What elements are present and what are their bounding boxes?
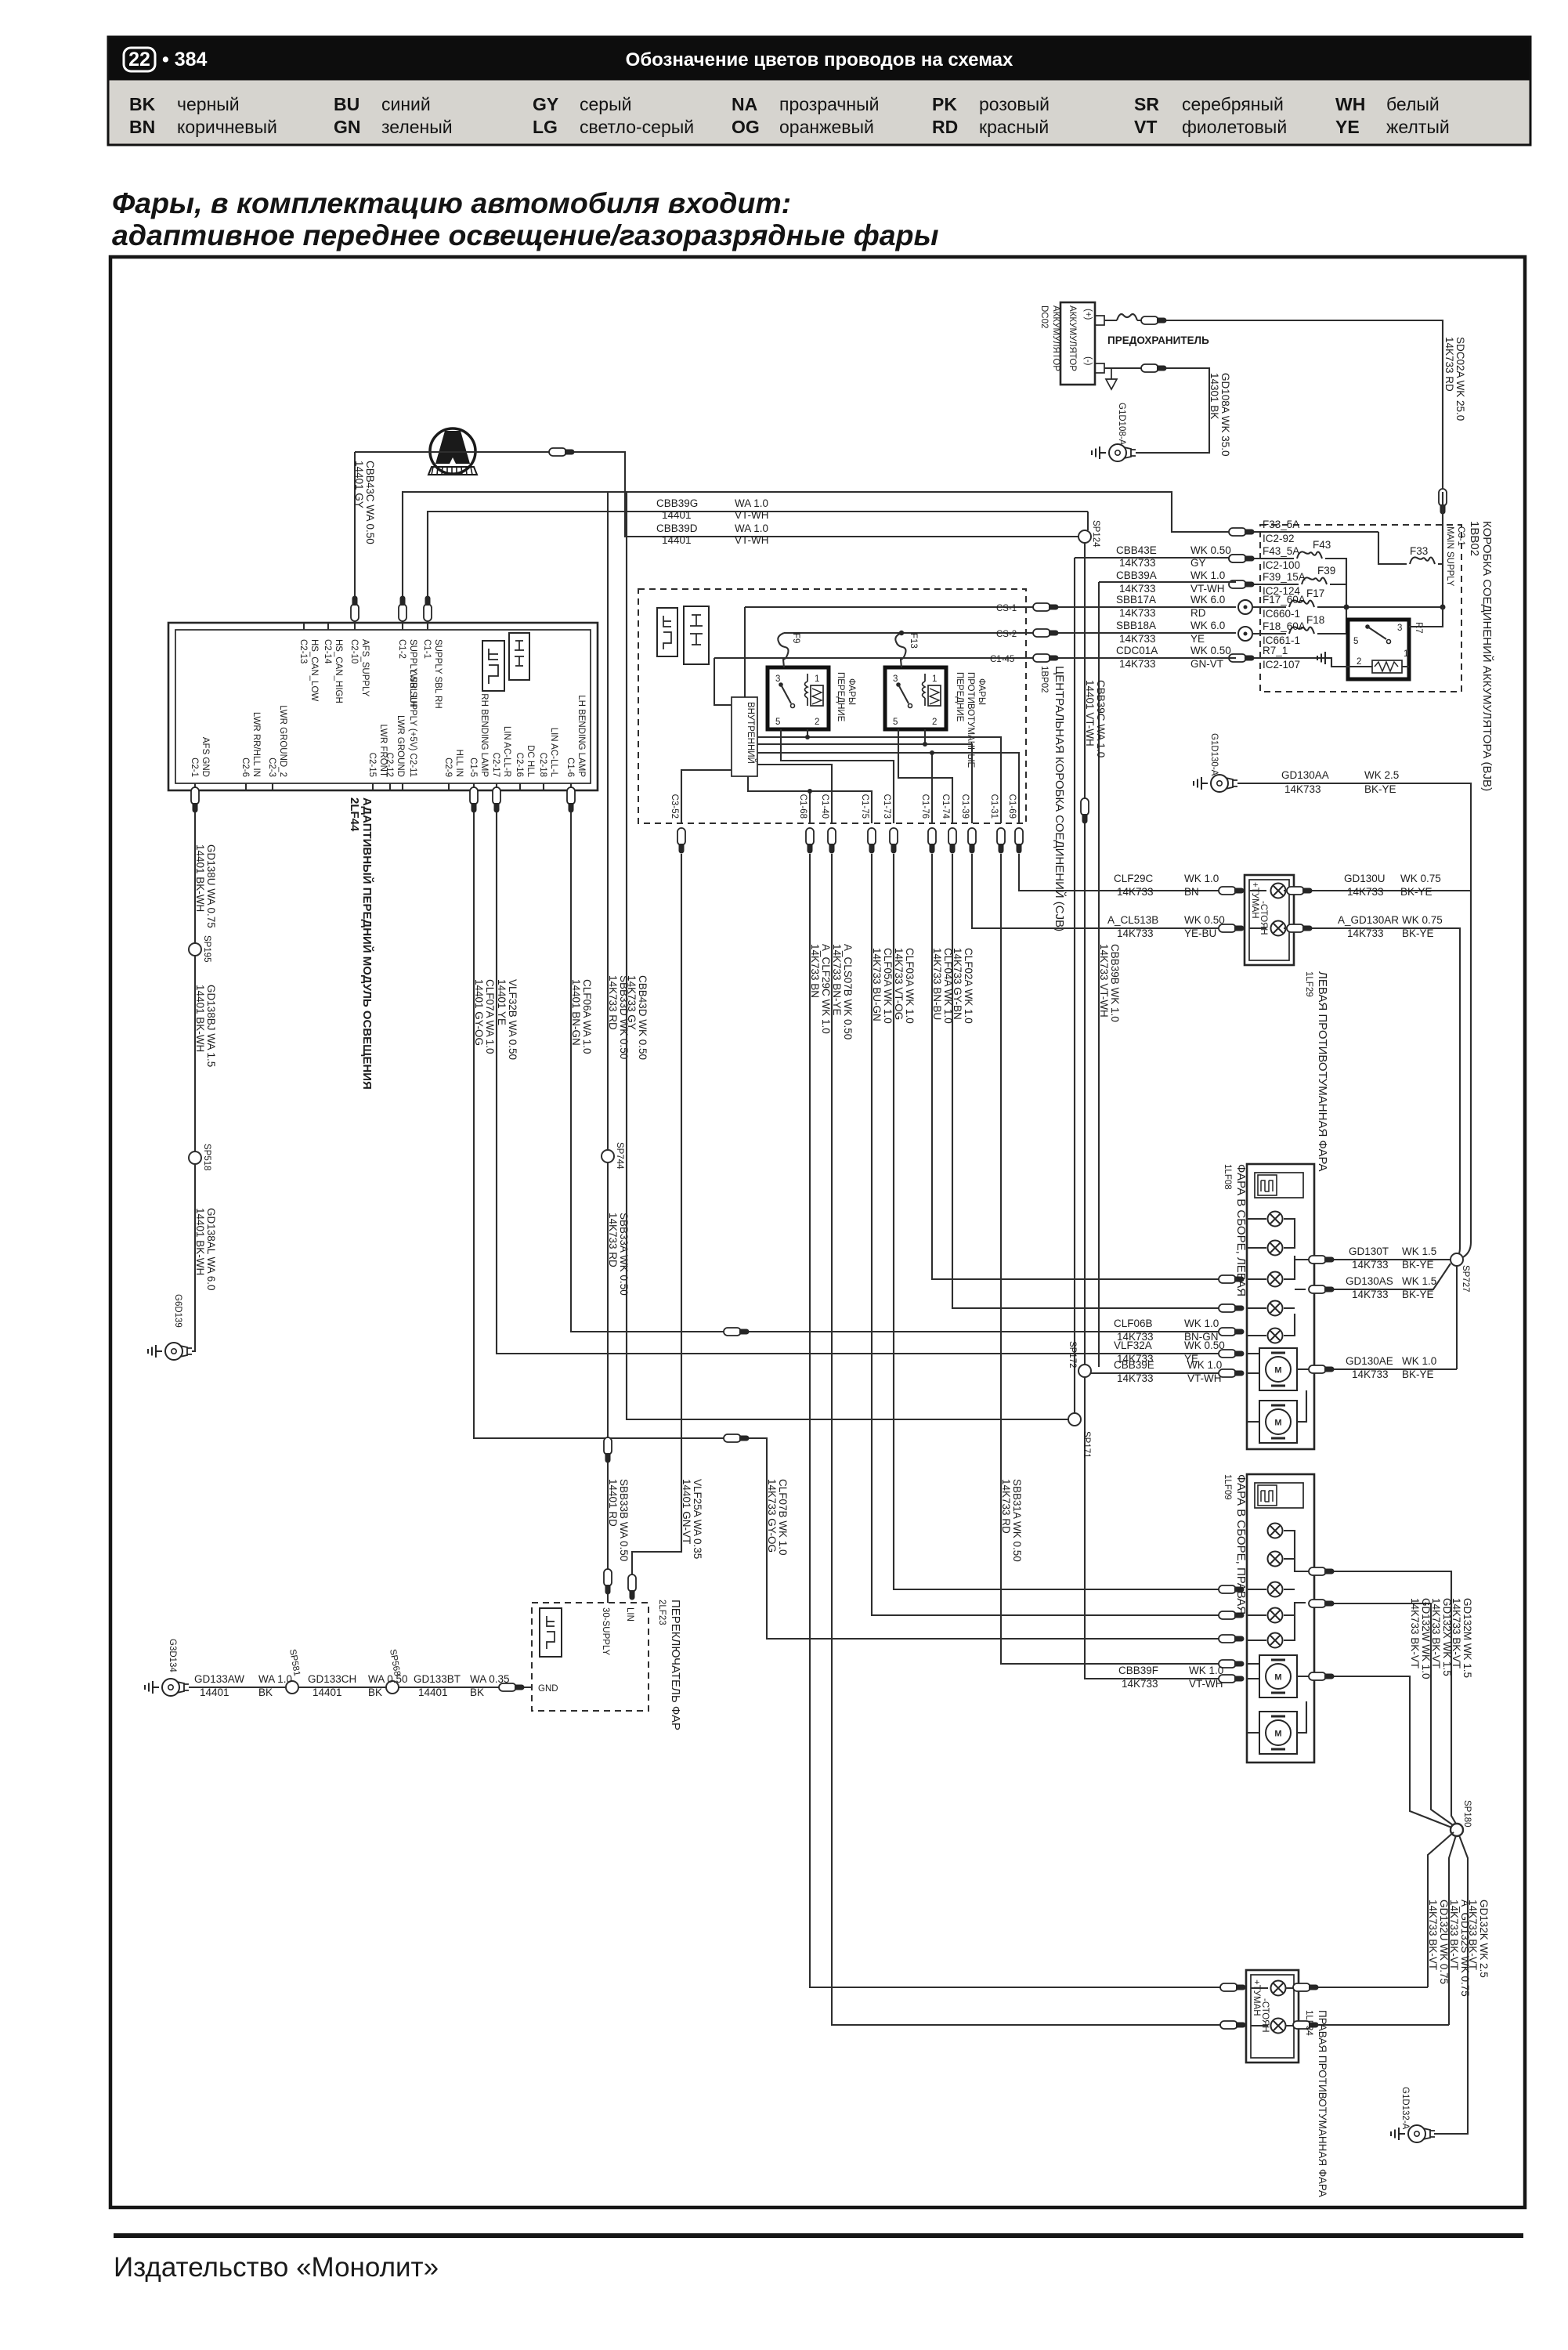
svg-text:BN: BN (1184, 886, 1199, 898)
svg-text:CLF06A WA 1.0: CLF06A WA 1.0 (581, 979, 593, 1054)
svg-text:C2-17: C2-17 (491, 753, 500, 777)
svg-text:GY: GY (1190, 557, 1206, 569)
svg-text:IC2-107: IC2-107 (1263, 659, 1300, 671)
svg-text:14401 GN-VT: 14401 GN-VT (681, 1479, 692, 1544)
svg-text:WK 2.5: WK 2.5 (1364, 769, 1399, 781)
wire A_CLS07B from C1-40 (832, 854, 1227, 2025)
svg-text:SBB33B WA 0.50: SBB33B WA 0.50 (618, 1479, 630, 1561)
svg-text:14K733: 14K733 (1117, 927, 1154, 939)
svg-text:14401 GY: 14401 GY (353, 461, 365, 508)
motor 2 (1259, 1712, 1297, 1754)
svg-text:IC2-92: IC2-92 (1263, 533, 1295, 544)
svg-text:YE: YE (1335, 117, 1360, 137)
fuse F13 above relay 2 (895, 633, 905, 667)
fusible link squiggle on + wire (1117, 314, 1137, 320)
svg-text:C1-6: C1-6 (565, 757, 575, 777)
switch 2LF23 dashed box (532, 1603, 649, 1711)
wire battery - to ground (1104, 368, 1209, 453)
svg-text:LG: LG (533, 117, 558, 137)
svg-text:BK: BK (368, 1687, 382, 1698)
svg-text:WK 6.0: WK 6.0 (1190, 594, 1225, 606)
wire A_CLF29C from C1-68 (810, 854, 1227, 1987)
svg-text:CLF02A WK 1.0: CLF02A WK 1.0 (963, 948, 974, 1024)
wire CLF05A from C1-75 (872, 854, 1227, 1615)
svg-text:14K733 BN-BU: 14K733 BN-BU (931, 948, 943, 1020)
motor 1 (1259, 1655, 1297, 1697)
svg-text:CBB43D WK 0.50: CBB43D WK 0.50 (637, 975, 649, 1060)
svg-text:CBB43C WA 0.50: CBB43C WA 0.50 (364, 461, 376, 544)
splice SP124 (1078, 530, 1091, 543)
wire SBB31A from C1-31 (1001, 854, 1227, 1664)
svg-text:GD132K WK 2.5: GD132K WK 2.5 (1478, 1900, 1490, 1978)
row SBB18A / CS-2 (784, 632, 1236, 634)
svg-text:LIN: LIN (625, 1607, 634, 1621)
svg-text:WK 0.50: WK 0.50 (1184, 914, 1225, 926)
svg-text:VT-WH: VT-WH (1187, 1372, 1222, 1384)
component symbol 2 in CJB (684, 606, 709, 664)
connectors under CJB (677, 828, 685, 854)
wire A_CL513B from C1-39 (972, 854, 1227, 928)
svg-text:F18_60A: F18_60A (1263, 620, 1306, 632)
svg-text:14K733: 14K733 (1117, 886, 1154, 898)
svg-text:SDC02A WK 25.0: SDC02A WK 25.0 (1454, 337, 1466, 421)
wire CLF03A from C1-73 (894, 854, 1227, 1589)
svg-text:BU: BU (334, 94, 359, 114)
svg-text:14K733: 14K733 (1119, 607, 1156, 619)
svg-text:PK: PK (932, 94, 957, 114)
wire branch to pin C1-68 (809, 791, 811, 823)
CJB bottom pin stubs and labels (670, 794, 1017, 819)
svg-text:VT-WH: VT-WH (735, 534, 769, 546)
svg-text:серебряный: серебряный (1182, 94, 1284, 114)
svg-text:WK 6.0: WK 6.0 (1190, 620, 1225, 631)
wire VLF32B from module C2-17 (497, 790, 1227, 1354)
fog output wires (1299, 1987, 1428, 1988)
svg-text:C1-39: C1-39 (960, 794, 970, 819)
svg-text:SP171: SP171 (1082, 1431, 1091, 1459)
svg-text:3: 3 (1397, 624, 1402, 633)
wire GD130AA (1237, 783, 1471, 1242)
svg-text:GD133CH: GD133CH (308, 1673, 356, 1685)
svg-text:14401 VT-WH: 14401 VT-WH (1084, 680, 1096, 747)
svg-text:CLF07A WA 1.0: CLF07A WA 1.0 (484, 979, 496, 1054)
fog lamp bulb 2 (1271, 921, 1286, 936)
svg-text:14401 BK-WH: 14401 BK-WH (194, 1208, 206, 1275)
splice SP180 (1451, 1824, 1463, 1836)
svg-text:C1-74: C1-74 (941, 794, 950, 819)
svg-text:RH BENDING LAMP: RH BENDING LAMP (479, 693, 489, 777)
svg-text:C2-6: C2-6 (240, 757, 250, 777)
svg-text:BN: BN (129, 117, 155, 137)
svg-text:WK 1.0: WK 1.0 (1402, 1355, 1436, 1367)
relay R7 box (1348, 620, 1409, 679)
svg-text:розовый: розовый (979, 94, 1050, 114)
svg-text:GD138U WA 0.75: GD138U WA 0.75 (205, 844, 217, 928)
svg-text:14K733 RD: 14K733 RD (1443, 337, 1455, 392)
svg-text:серый: серый (580, 94, 631, 114)
publisher logo (430, 428, 475, 474)
svg-text:BK-YE: BK-YE (1402, 1259, 1434, 1271)
svg-text:фиолетовый: фиолетовый (1182, 117, 1287, 137)
svg-text:SP727: SP727 (1461, 1265, 1470, 1292)
splice SP581 (286, 1681, 298, 1694)
svg-text:ПЕРЕДНИЕ: ПЕРЕДНИЕ (955, 672, 964, 722)
svg-text:14K733: 14K733 (1352, 1289, 1389, 1300)
svg-text:R7: R7 (1414, 622, 1423, 634)
svg-text:C2-13: C2-13 (298, 639, 308, 663)
wire CBB39C down from SP124 (1085, 512, 1088, 1371)
svg-text:ФАРА В СБОРЕ, ЛЕВАЯ: ФАРА В СБОРЕ, ЛЕВАЯ (1234, 1164, 1248, 1296)
svg-text:LIN AC-LL-L: LIN AC-LL-L (549, 728, 558, 778)
wire CBB43E down (1074, 558, 1075, 1419)
ВНУТРЕННИЙ box (732, 697, 757, 776)
wire CBB39D from module C1-1 up (428, 512, 1088, 623)
svg-text:2: 2 (815, 718, 819, 727)
svg-text:C1-69: C1-69 (1007, 794, 1017, 819)
svg-text:1LF09: 1LF09 (1223, 1474, 1232, 1500)
svg-text:F39_15A: F39_15A (1263, 571, 1306, 583)
svg-text:черный: черный (177, 94, 240, 114)
component symbol 2 inside module (509, 633, 529, 680)
svg-text:прозрачный: прозрачный (779, 94, 879, 114)
svg-text:GN-VT: GN-VT (1190, 658, 1223, 670)
svg-text:14K733 BK-VT: 14K733 BK-VT (1409, 1598, 1421, 1668)
svg-text:BK-YE: BK-YE (1402, 1289, 1434, 1300)
svg-text:C2-1: C2-1 (190, 757, 199, 777)
svg-text:(-): (-) (1083, 356, 1093, 366)
connector on logo line (549, 448, 575, 456)
svg-text:ВНУТРЕННИЙ: ВНУТРЕННИЙ (746, 702, 756, 764)
ground symbol at relay (1317, 652, 1331, 664)
svg-text:2: 2 (1357, 657, 1361, 667)
lamps (1268, 1524, 1283, 1538)
svg-text:GD132U WK 0.75: GD132U WK 0.75 (1438, 1900, 1450, 1984)
svg-text:1LF34: 1LF34 (1304, 2010, 1313, 2036)
wire CLF07A from module C1-5 (474, 790, 1227, 1639)
fuse F9 above relay (778, 633, 788, 667)
wire CLF04A from C1-76 (932, 854, 1227, 1279)
svg-text:1: 1 (815, 674, 819, 684)
svg-text:WA 0.50: WA 0.50 (368, 1673, 408, 1685)
internal links (1247, 1589, 1266, 1679)
svg-text:красный: красный (979, 117, 1049, 137)
svg-text:SP195: SP195 (202, 935, 211, 963)
ground G3D134 row (162, 1679, 189, 1696)
module top pin ticks (304, 623, 428, 630)
svg-text:14K733 GY-BN: 14K733 GY-BN (952, 948, 963, 1020)
svg-text:14K733: 14K733 (1352, 1259, 1389, 1271)
svg-text:14K733: 14K733 (1284, 783, 1321, 795)
svg-text:14K733: 14K733 (1119, 658, 1156, 670)
svg-text:LIN AC-LL-R: LIN AC-LL-R (502, 726, 511, 777)
svg-text:DC HLL: DC HLL (526, 745, 535, 778)
svg-text:14K733 BK-VT: 14K733 BK-VT (1448, 1900, 1460, 1970)
svg-text:3: 3 (893, 674, 898, 684)
input connectors (1220, 1983, 1246, 1991)
svg-text:SP172: SP172 (1068, 1341, 1077, 1368)
svg-text:14K733: 14K733 (1347, 927, 1384, 939)
svg-text:ФАРЫ: ФАРЫ (847, 678, 856, 705)
svg-text:A_CLF29C WK 1.0: A_CLF29C WK 1.0 (820, 944, 832, 1034)
svg-text:WK 1.0: WK 1.0 (1189, 1665, 1223, 1676)
svg-text:A_GD130AR: A_GD130AR (1338, 914, 1399, 926)
svg-text:WK 0.50: WK 0.50 (1190, 544, 1231, 556)
wire CLF06A from module C1-6 (571, 790, 1227, 1332)
svg-text:WA 1.0: WA 1.0 (735, 522, 768, 534)
svg-text:WK 1.0: WK 1.0 (1184, 873, 1219, 884)
svg-text:30-SUPPLY: 30-SUPPLY (601, 1607, 610, 1655)
svg-text:F39: F39 (1317, 565, 1335, 577)
output rows GD130T / GD130AS / GD130AE (1314, 1259, 1451, 1260)
svg-text:1BB02: 1BB02 (1468, 521, 1481, 556)
wire AFS GND down from module (192, 790, 195, 1351)
svg-text:SP180: SP180 (1462, 1800, 1472, 1828)
svg-text:CLF05A WK 1.0: CLF05A WK 1.0 (882, 948, 894, 1024)
svg-text:АККУМУЛЯТОР: АККУМУЛЯТОР (1051, 305, 1060, 371)
svg-text:желтый: желтый (1386, 117, 1450, 137)
svg-text:GD133AW: GD133AW (194, 1673, 244, 1685)
svg-text:G1D108-A: G1D108-A (1117, 403, 1126, 446)
svg-text:CLF06B: CLF06B (1114, 1318, 1153, 1329)
svg-text:14401 RD: 14401 RD (607, 1479, 619, 1527)
svg-text:14K733 BU-GN: 14K733 BU-GN (871, 948, 883, 1021)
svg-text:GD130AE: GD130AE (1346, 1355, 1393, 1367)
svg-text:АККУМУЛЯТОР: АККУМУЛЯТОР (1068, 305, 1077, 371)
svg-text:КОРОБКА СОЕДИНЕНИЙ АККУМУЛЯТОР: КОРОБКА СОЕДИНЕНИЙ АККУМУЛЯТОРА (BJB) (1480, 521, 1494, 791)
svg-text:SBB33A WK 0.50: SBB33A WK 0.50 (618, 1213, 630, 1296)
svg-text:14301 BK: 14301 BK (1209, 373, 1220, 419)
wire relay1 pin2 drop (807, 729, 808, 737)
svg-text:WK 1.5: WK 1.5 (1402, 1245, 1436, 1257)
svg-text:WA 1.0: WA 1.0 (258, 1673, 292, 1685)
svg-text:CBB39A: CBB39A (1116, 569, 1157, 581)
svg-text:LWR GROUND_2: LWR GROUND_2 (278, 705, 287, 777)
svg-text:5: 5 (893, 718, 898, 727)
module bottom pin labels (190, 669, 586, 777)
row F17_60A with fuse F17 (1253, 606, 1443, 608)
svg-text:ПРОТИВОТУМАННЫЕ: ПРОТИВОТУМАННЫЕ (966, 672, 975, 768)
wire branch to pin C1-76 (931, 753, 933, 823)
right fog lamp box (1246, 1970, 1299, 2063)
svg-text:светло-серый: светло-серый (580, 117, 694, 137)
svg-text:C1-73: C1-73 (882, 794, 891, 819)
svg-text:C2-16: C2-16 (515, 753, 524, 777)
svg-text:+ТУМАН: +ТУМАН (1252, 1979, 1261, 2016)
wire CLF02A from C1-74 (952, 854, 1227, 1308)
svg-text:АДАПТИВНЫЙ ПЕРЕДНИЙ МОДУЛЬ ОСВ: АДАПТИВНЫЙ ПЕРЕДНИЙ МОДУЛЬ ОСВЕЩЕНИЯ (360, 797, 374, 1090)
svg-text:F17_60A: F17_60A (1263, 594, 1306, 606)
svg-text:1: 1 (932, 674, 937, 684)
row SBB17A / CS-1 (745, 607, 1236, 697)
ground G6D139 (165, 1343, 192, 1360)
ground eyelet G1D108-A (1109, 444, 1136, 461)
internal links (1247, 1219, 1266, 1336)
svg-text:RD: RD (932, 117, 958, 137)
svg-text:14K733: 14K733 (1119, 633, 1156, 645)
svg-text:2: 2 (932, 718, 937, 727)
svg-text:SBB31A WK 0.50: SBB31A WK 0.50 (1011, 1479, 1023, 1562)
svg-text:C2-9: C2-9 (443, 757, 453, 777)
svg-text:C1-2: C1-2 (397, 639, 406, 659)
svg-text:GD133BT: GD133BT (414, 1673, 461, 1685)
svg-text:CBB39C WA 1.0: CBB39C WA 1.0 (1095, 680, 1107, 757)
svg-text:синий: синий (381, 94, 431, 114)
heater symbol (1255, 1173, 1303, 1198)
svg-text:GD130T: GD130T (1349, 1245, 1389, 1257)
svg-text:GD108A WK 35.0: GD108A WK 35.0 (1219, 373, 1231, 457)
svg-text:C1-75: C1-75 (860, 794, 869, 819)
svg-text:14K733: 14K733 (1122, 1678, 1158, 1690)
svg-text:LWR RR/HLL IN: LWR RR/HLL IN (251, 712, 261, 777)
splice SP744 (602, 1150, 614, 1162)
svg-text:C1-76: C1-76 (920, 794, 930, 819)
svg-text:14K733 VT-WH: 14K733 VT-WH (1098, 944, 1110, 1018)
svg-text:YE-BU: YE-BU (1184, 927, 1216, 939)
svg-text:LWR GROUND: LWR GROUND (396, 715, 405, 777)
svg-text:14K733 BK-VT: 14K733 BK-VT (1451, 1598, 1462, 1668)
row CBB39A (1099, 581, 1236, 583)
svg-text:F43: F43 (1313, 539, 1331, 551)
splice SP195 (189, 943, 201, 956)
wire battery + to main supply (1104, 320, 1443, 492)
row F43_5A with fuse F43 (1253, 559, 1346, 634)
svg-text:VLF32B WA 0.50: VLF32B WA 0.50 (507, 979, 518, 1060)
wire to pin C1-75 (748, 776, 872, 823)
svg-text:C3-1: C3-1 (1456, 526, 1465, 546)
svg-text:3: 3 (775, 674, 780, 684)
svg-text:DC02: DC02 (1039, 305, 1049, 328)
svg-text:ЦЕНТРАЛЬНАЯ КОРОБКА СОЕДИНЕНИЙ: ЦЕНТРАЛЬНАЯ КОРОБКА СОЕДИНЕНИЙ (CJB) (1053, 666, 1067, 931)
svg-text:C3-52: C3-52 (670, 794, 679, 819)
svg-text:14K733 GY: 14K733 GY (626, 975, 638, 1030)
svg-text:C2-18: C2-18 (538, 753, 547, 777)
svg-text:BK-YE: BK-YE (1402, 1368, 1434, 1380)
svg-text:IC660-1: IC660-1 (1263, 608, 1300, 620)
svg-text:14K733 BK-VT: 14K733 BK-VT (1430, 1598, 1442, 1668)
svg-text:BK-YE: BK-YE (1402, 927, 1434, 939)
svg-text:WA 1.0: WA 1.0 (735, 497, 768, 509)
svg-text:SR: SR (1134, 94, 1159, 114)
svg-text:GD138BJ WA 1.5: GD138BJ WA 1.5 (205, 985, 217, 1067)
relay coil (1372, 660, 1402, 673)
svg-text:ПЕРЕДНИЕ: ПЕРЕДНИЕ (836, 672, 845, 722)
right side wires GD130U / A_GD130AR (1294, 891, 1471, 1258)
module bottom pin ticks (195, 783, 571, 790)
svg-text:BK: BK (129, 94, 156, 114)
svg-text:CBB39F: CBB39F (1118, 1665, 1158, 1676)
wire CLF29C from C1-69 (1019, 854, 1227, 891)
svg-text:14K733 RD: 14K733 RD (1000, 1479, 1012, 1534)
svg-text:GD130AA: GD130AA (1281, 769, 1329, 781)
svg-text:C2-3: C2-3 (267, 757, 276, 777)
connector on + wire (1141, 316, 1167, 324)
svg-text:CS-1: CS-1 (996, 604, 1017, 613)
svg-text:C2-12: C2-12 (385, 753, 394, 777)
svg-text:14401 BK-WH: 14401 BK-WH (194, 985, 206, 1052)
svg-text:AFS_SUPPLY: AFS_SUPPLY (360, 639, 370, 697)
row CBB43E (1075, 557, 1236, 559)
motor 2 (1259, 1401, 1297, 1443)
svg-text:ПЕРЕКЛЮЧАТЕЛЬ ФАР: ПЕРЕКЛЮЧАТЕЛЬ ФАР (669, 1600, 682, 1730)
svg-text:2LF23: 2LF23 (657, 1600, 667, 1625)
svg-text:14401: 14401 (418, 1687, 448, 1698)
svg-text:VT: VT (1134, 117, 1157, 137)
relay ПЕРЕДНИЕ ПРОТИВОТУМАННЫЕ ФАРЫ box (885, 667, 946, 729)
row R7_1 (1253, 658, 1361, 667)
svg-text:C1-5: C1-5 (468, 757, 478, 777)
svg-text:SP518: SP518 (202, 1144, 211, 1171)
wire horizontal through logo (355, 452, 1078, 537)
left fog lamp box (1245, 875, 1294, 965)
BJB dashed box (1260, 525, 1461, 692)
svg-text:C1-1: C1-1 (422, 639, 432, 659)
svg-text:ПРАВАЯ ПРОТИВОТУМАННАЯ ФАРА: ПРАВАЯ ПРОТИВОТУМАННАЯ ФАРА (1317, 2010, 1328, 2197)
svg-text:14K733: 14K733 (1117, 1372, 1154, 1384)
left headlamp box (1247, 1164, 1314, 1449)
svg-text:14K733: 14K733 (1352, 1368, 1389, 1380)
svg-text:F33: F33 (1410, 545, 1428, 557)
svg-text:14K733 RD: 14K733 RD (607, 975, 619, 1030)
output rows GD132M / GD132X / GD132W (1314, 1571, 1457, 1825)
svg-text:Издательство «Монолит»: Издательство «Монолит» (114, 2252, 439, 2283)
svg-text:GN: GN (334, 117, 361, 137)
svg-text:G1D130-A: G1D130-A (1209, 733, 1219, 776)
svg-text:BK: BK (258, 1687, 273, 1698)
relay ПЕРЕДНИЕ ФАРЫ box (768, 667, 829, 729)
svg-text:Фары, в комплектацию автомобил: Фары, в комплектацию автомобиля входит: (112, 186, 791, 219)
svg-text:14401: 14401 (662, 534, 692, 546)
svg-text:VLF25A WA 0.35: VLF25A WA 0.35 (692, 1479, 703, 1559)
svg-text:C2-14: C2-14 (323, 639, 332, 664)
svg-text:F9: F9 (791, 633, 800, 643)
svg-text:A_CL513B: A_CL513B (1107, 914, 1158, 926)
svg-text:14401 GY-OG: 14401 GY-OG (473, 979, 485, 1046)
svg-text:14401 BK-WH: 14401 BK-WH (194, 844, 206, 912)
svg-text:AFS GND: AFS GND (201, 737, 210, 777)
wire relay2 pin5 to pin C1-74 (898, 729, 952, 823)
svg-text:GD132W WK 1.0: GD132W WK 1.0 (1420, 1598, 1432, 1679)
wire CBB43C from module C2-10 up (354, 452, 356, 623)
connector on main supply wire (1439, 489, 1447, 515)
battery DC02 box (1060, 302, 1095, 385)
svg-text:VLF32A: VLF32A (1114, 1339, 1152, 1351)
svg-text:MAIN SUPPLY: MAIN SUPPLY (1445, 526, 1454, 587)
svg-text:G1D132-A: G1D132-A (1400, 2087, 1410, 2130)
svg-text:WK 1.0: WK 1.0 (1190, 569, 1225, 581)
svg-text:14K733: 14K733 (1347, 886, 1384, 898)
svg-text:C1-31: C1-31 (989, 794, 999, 819)
svg-text:1LF29: 1LF29 (1304, 971, 1313, 997)
svg-text:CLF29C: CLF29C (1114, 873, 1154, 884)
svg-text:(+): (+) (1083, 309, 1093, 320)
svg-text:1BP02: 1BP02 (1039, 666, 1049, 693)
wire to pin C3-52 (681, 770, 732, 823)
svg-text:14K733 RD: 14K733 RD (607, 1213, 619, 1267)
svg-text:RD: RD (1190, 607, 1206, 619)
svg-text:IC2-100: IC2-100 (1263, 559, 1300, 571)
wire SBB33D down (607, 492, 609, 1603)
svg-text:14K733 BK-VT: 14K733 BK-VT (1427, 1900, 1439, 1970)
svg-text:ФАРЫ: ФАРЫ (977, 678, 986, 705)
svg-text:HS_CAN_LOW: HS_CAN_LOW (309, 639, 319, 701)
row F33_5A (1253, 531, 1378, 533)
wire relay2 pin2 drop (924, 729, 926, 744)
svg-text:CLF07B WK 1.0: CLF07B WK 1.0 (777, 1479, 789, 1556)
svg-text:белый: белый (1386, 94, 1440, 114)
svg-text:GD138AL WA 6.0: GD138AL WA 6.0 (205, 1208, 217, 1291)
splice SP171 on CBB43E/CBB43D (1068, 1413, 1081, 1426)
svg-text:CBB39B WK 1.0: CBB39B WK 1.0 (1109, 944, 1121, 1022)
